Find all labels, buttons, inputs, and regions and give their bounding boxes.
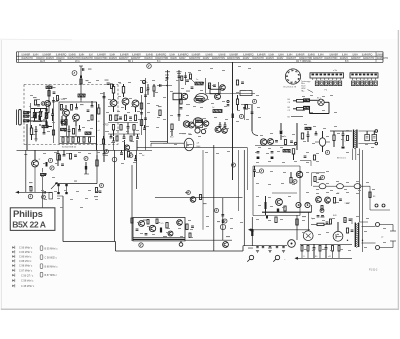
svg-text:ILMH: ILMH <box>169 53 175 56</box>
wire vert x179 <box>178 70 180 121</box>
wire vert x136.5b <box>136 150 138 189</box>
FM input chain wire <box>48 85 50 114</box>
Philips label text line1 <box>13 209 43 220</box>
tone bus y245.7 <box>243 245 287 247</box>
small box on busA <box>49 193 53 200</box>
wire ifstrip join <box>151 133 191 147</box>
res R40 <box>57 150 59 166</box>
caps row mid <box>219 122 227 126</box>
AVC wire row3 <box>288 117 304 119</box>
svg-text:RAMVO: RAMVO <box>266 57 275 60</box>
coil oval L10 <box>193 118 203 127</box>
resistor R26 <box>171 124 173 136</box>
IF transistor TS6 <box>183 121 194 128</box>
det label <box>284 136 297 145</box>
transistor TS11 oval <box>319 131 325 152</box>
table row1 text <box>22 53 384 56</box>
ift tail label <box>337 158 347 160</box>
ift top leads <box>359 130 378 145</box>
tertiary circle <box>195 128 206 134</box>
svg-text:B 123 45 6 78: B 123 45 6 78 <box>284 87 297 89</box>
svg-text:ILMHB: ILMHB <box>146 53 154 56</box>
IF amp box <box>173 93 188 100</box>
switch S2 contacts <box>352 81 378 86</box>
switch bank S2 frame <box>350 73 378 78</box>
page left edge <box>0 40 2 309</box>
bus y251 <box>116 250 244 252</box>
svg-text:C 87 MHz/ c: C 87 MHz/ c <box>19 269 33 272</box>
legend left text <box>19 247 35 288</box>
bottom bus out <box>295 257 353 260</box>
AF box left edge <box>252 166 254 216</box>
TS11 leads <box>315 141 330 143</box>
svg-text:ILMH: ILMH <box>278 53 284 56</box>
res x160 <box>158 106 162 116</box>
svg-text:RAMVO: RAMVO <box>36 57 45 60</box>
output transformer T1 <box>355 223 358 248</box>
lamp wire top <box>310 99 318 101</box>
svg-text:ILMH: ILMH <box>287 53 293 56</box>
capacitor C26 <box>227 100 230 105</box>
table row3 text <box>40 60 349 63</box>
dial lamp E1 <box>318 99 324 105</box>
resistor R5 <box>72 129 74 135</box>
wire det join <box>255 145 296 147</box>
bus y197.5 <box>155 197 243 199</box>
emitter resistor R16 <box>115 115 117 121</box>
oscillator shield box <box>59 102 97 144</box>
svg-text:C 56 QT / c: C 56 QT / c <box>21 274 34 277</box>
left cluster parts <box>39 155 64 167</box>
discriminator block <box>209 85 220 94</box>
label k9 <box>98 121 101 132</box>
AF box top line <box>253 165 300 167</box>
ferrite antenna L1 <box>17 110 22 126</box>
mixer column parts <box>45 105 47 128</box>
cluster x94-103 <box>94 184 104 198</box>
comb r2 <box>307 246 309 259</box>
label above rail <box>29 181 77 188</box>
tone labels <box>248 248 272 249</box>
IF top parts <box>186 78 196 92</box>
svg-text:M4 T NB4549L: M4 T NB4549L <box>296 61 312 63</box>
svg-text:a31: a31 <box>328 256 331 258</box>
emitter resistor R15 <box>109 115 111 121</box>
top mid components <box>208 83 225 90</box>
AM tuner dashed enclosure <box>24 85 118 145</box>
cluster right of bus <box>124 145 136 161</box>
table row2 text <box>22 57 389 60</box>
row2 parts <box>333 198 350 205</box>
res R31 <box>345 136 349 143</box>
tube socket caption <box>284 87 297 89</box>
resistor R12 <box>98 104 100 114</box>
AGC rail arrow <box>16 191 52 194</box>
drawing number text <box>369 268 378 271</box>
AVC label2 <box>288 107 290 112</box>
circled ref 8 <box>215 209 219 213</box>
cap C40 <box>63 150 66 156</box>
svg-text:ILMHBR: ILMHBR <box>43 53 52 56</box>
svg-text:4d: 4d <box>142 155 144 157</box>
capacitor C16 <box>136 134 139 138</box>
wire vert x30.5 <box>30 103 32 132</box>
resistor R2 <box>60 105 62 111</box>
dark trimmer pot <box>232 114 234 119</box>
output tube V2 <box>333 222 343 241</box>
wire vert x252 <box>252 104 258 136</box>
wire vert x203 <box>202 150 204 230</box>
svg-text:RAMVO: RAMVO <box>56 57 65 60</box>
AVC resistor row2 <box>293 108 307 111</box>
scan page tint <box>1 39 399 309</box>
osc box extra transistor <box>61 120 66 125</box>
wire right join <box>300 161 311 167</box>
circled ref 6 <box>293 180 297 184</box>
svg-text:ILMH: ILMH <box>33 53 39 56</box>
circled ref on x232 <box>232 163 236 167</box>
svg-text:ILMHBR: ILMHBR <box>22 53 31 56</box>
resistor R8 <box>72 137 74 142</box>
driver transistor TS17 <box>139 221 145 227</box>
page right edge <box>397 30 399 310</box>
svg-text:BD 2: BD 2 <box>128 61 134 63</box>
svg-text:B 87 88S/ c: B 87 88S/ c <box>45 274 58 277</box>
node dot tuner <box>39 120 47 121</box>
wire vert x370 <box>369 186 371 210</box>
svg-text:C 58 kHz/ c: C 58 kHz/ c <box>21 280 34 283</box>
capacitor C10 <box>103 97 106 98</box>
top cluster x108 <box>105 80 113 89</box>
IF transformer S2 <box>196 119 203 128</box>
driver box inner bottom <box>133 238 185 240</box>
resistor R9 <box>78 137 80 142</box>
label mid <box>142 155 144 157</box>
switch bank S1 cells <box>312 74 343 80</box>
top right of table parts <box>236 80 244 85</box>
terminal pair right <box>370 204 390 210</box>
svg-text:B8 C6 2.5: B8 C6 2.5 <box>337 158 347 160</box>
AF bottom line <box>253 215 300 217</box>
driver dark pot <box>160 228 162 233</box>
coil L12 <box>283 149 290 152</box>
driver input cluster <box>185 191 207 205</box>
res R33 <box>290 172 292 183</box>
x132 component <box>131 218 133 223</box>
bottom of x104 parts <box>102 136 104 150</box>
AF box bottom edge <box>262 205 312 212</box>
res R51 <box>369 192 376 198</box>
comb labels <box>303 256 331 258</box>
resistor R25 <box>141 88 143 93</box>
capacitor C13 <box>127 123 130 135</box>
svg-text:RAMVOTRN: RAMVOTRN <box>212 57 225 60</box>
svg-text:ILMHB: ILMHB <box>308 53 316 56</box>
driver parts2 <box>145 219 168 235</box>
switch legend pointer <box>308 90 314 93</box>
circled ref 4c <box>147 64 152 69</box>
svg-text:RAMVOTR: RAMVOTR <box>81 57 93 60</box>
battery cell B2 <box>304 106 310 109</box>
svg-text:ILM: ILM <box>89 53 93 56</box>
top labels out <box>311 215 337 220</box>
svg-text:ILMHBR: ILMHBR <box>296 53 305 56</box>
top join caps <box>184 74 191 79</box>
electrolytic C51 <box>251 217 255 246</box>
comb r4 <box>332 246 334 259</box>
resistor R6 <box>62 137 64 142</box>
fm lead <box>0 0 1 1</box>
AM label <box>197 143 202 148</box>
svg-text:C3: C3 <box>288 110 290 112</box>
transistor TS14 <box>32 150 39 192</box>
switch S1 contacts <box>315 81 341 86</box>
component value label noise <box>30 66 386 251</box>
svg-text:RAMV: RAMV <box>243 57 250 60</box>
row2 transistors <box>316 197 331 203</box>
speaker bracket <box>390 225 396 248</box>
lamp wire loop <box>310 102 330 113</box>
transistor TS19 <box>223 242 229 248</box>
svg-text:4700: 4700 <box>103 124 109 127</box>
comb r5 <box>338 246 340 259</box>
svg-text:C 83 MHz/ c: C 83 MHz/ c <box>19 251 33 254</box>
svg-text:C8: C8 <box>288 102 290 104</box>
circled ref 2b <box>84 157 88 161</box>
label IF2 <box>170 137 174 139</box>
driver label 5.5 <box>161 223 165 225</box>
svg-text:28 A: 28 A <box>75 60 80 63</box>
legend right symbols <box>40 246 43 277</box>
wire vert x132 <box>131 165 133 241</box>
coil L11 <box>305 127 311 129</box>
svg-text:RAMV: RAMV <box>170 57 177 60</box>
capacitor C7 <box>68 126 71 137</box>
cap C31 <box>342 131 345 149</box>
preamp transistor TS13 <box>276 199 283 206</box>
x179 lower parts <box>178 99 183 116</box>
svg-text:RAMVOTR: RAMVOTR <box>189 57 201 60</box>
transistor TS8 <box>203 121 209 127</box>
AF box part <box>266 216 306 219</box>
cluster r41 <box>69 154 77 160</box>
mixer transistor TS1 <box>63 105 70 116</box>
resistor R17 <box>124 115 126 121</box>
resistor R21 <box>133 125 135 137</box>
svg-text:B4: B4 <box>288 99 290 101</box>
parts right join <box>304 155 316 160</box>
svg-text:RAMVOTRN: RAMVOTRN <box>299 57 312 60</box>
resistor R13 <box>112 84 114 99</box>
parts above busA <box>29 182 33 191</box>
wire vert x145.5 <box>145 78 147 150</box>
B+ rail y183.6 <box>55 183 97 185</box>
cluster x33-40 upper <box>33 97 40 106</box>
label C57 B5X <box>57 99 66 101</box>
cap C30 <box>315 131 318 135</box>
sec center tap <box>360 222 369 241</box>
neutralizing row <box>157 84 172 87</box>
resistor R10 <box>83 137 85 142</box>
svg-text:ILMHB: ILMHB <box>69 53 77 56</box>
wire vert x244.3 <box>243 150 245 246</box>
tube socket pins <box>286 70 300 84</box>
svg-text:ILMHBR: ILMHBR <box>329 53 338 56</box>
speaker terminal bottom <box>362 243 394 250</box>
res R32 <box>292 149 294 161</box>
svg-text:ILMHBRQ: ILMHBRQ <box>178 53 189 56</box>
wire vert x185r <box>185 72 187 85</box>
capacitor C11 <box>119 117 122 118</box>
comb c1 <box>313 244 316 258</box>
RF transistor TS3 <box>110 100 117 112</box>
svg-text:C 98 MHz/ c: C 98 MHz/ c <box>19 265 33 268</box>
bottom of x114 parts <box>112 137 115 150</box>
label above L6 <box>196 79 199 81</box>
circled ref 9 <box>325 150 329 154</box>
svg-text:RAMVOTR: RAMVOTR <box>252 57 264 60</box>
svg-text:a: a <box>345 141 346 143</box>
driver extra parts <box>136 220 173 238</box>
comb r1 <box>301 246 303 259</box>
mixer row wire <box>206 93 256 95</box>
IF transistor TS5 <box>132 100 139 112</box>
diag arrow mid <box>51 182 58 189</box>
svg-text:RAMVOT: RAMVOT <box>131 57 141 60</box>
tube socket view B1 <box>285 69 300 84</box>
page top edge <box>0 38 72 41</box>
svg-text:RAMVOT: RAMVOT <box>286 57 296 60</box>
agc diode <box>84 162 89 174</box>
svg-text:B 88 MHz/ c: B 88 MHz/ c <box>45 265 59 268</box>
tone comb grounds <box>256 251 285 253</box>
svg-text:RAMVOTRN: RAMVOTRN <box>227 57 240 60</box>
switch S1 label <box>333 70 338 72</box>
Philips label text line2 <box>12 220 46 230</box>
resistor R11 <box>89 137 91 142</box>
wire antenna tap <box>27 112 31 150</box>
detector transistor TS10 <box>260 139 273 146</box>
detector caps <box>275 140 293 145</box>
speaker label <box>381 237 384 239</box>
svg-text:RAMV: RAMV <box>179 57 186 60</box>
svg-text:RAMVOT: RAMVOT <box>313 57 323 60</box>
wire tuner top <box>31 109 46 122</box>
svg-text:ILMH: ILMH <box>79 53 85 56</box>
dumbbell part 2 <box>65 184 67 194</box>
resistor R1 <box>30 125 32 140</box>
wire vert x238.5 <box>238 150 240 211</box>
res R50 <box>314 177 322 182</box>
FM chain cap <box>52 87 59 101</box>
capacitor C14 <box>110 134 113 138</box>
cap C32 <box>365 131 370 141</box>
mixer row box <box>240 91 252 96</box>
wire vert x167 <box>167 70 169 143</box>
res R34 <box>277 206 286 212</box>
battery cell B1 <box>304 99 310 102</box>
wire y240 link <box>185 239 232 241</box>
wire step x115.5 <box>115 242 117 252</box>
AVC resistor row1 <box>293 100 307 103</box>
svg-text:C 86 kHz/ c: C 86 kHz/ c <box>19 256 32 259</box>
osc transistor TS2 <box>73 114 80 126</box>
svg-text:ILMHB: ILMHB <box>376 53 384 56</box>
svg-text:o: o <box>318 179 319 181</box>
circled ref 10 <box>223 219 227 223</box>
screen cluster <box>346 228 353 241</box>
antenna coil windings <box>24 112 30 122</box>
cap C60 <box>144 95 147 119</box>
legend left symbols <box>12 246 15 288</box>
cap on busA <box>44 191 45 194</box>
transistor TS9 <box>215 127 227 134</box>
svg-text:ILMHBR: ILMHBR <box>257 53 266 56</box>
osc coil mid <box>41 168 47 208</box>
circled ref top <box>72 71 77 76</box>
svg-text:ILMH: ILMH <box>352 53 358 56</box>
svg-text:RAMVOTR: RAMVOTR <box>22 57 34 60</box>
label 1n 472 <box>29 105 44 109</box>
svg-text:Philips: Philips <box>13 209 43 220</box>
svg-text:RAMV: RAMV <box>203 57 210 60</box>
cap chain x104 <box>103 150 109 162</box>
wire vert x114.5 <box>114 150 116 241</box>
svg-text:C 88 kHz/ c: C 88 kHz/ c <box>19 260 32 263</box>
row2 labels <box>321 193 339 211</box>
transistor TS7 <box>215 94 221 100</box>
headphone jack J3 <box>288 215 298 247</box>
driver box <box>133 218 185 241</box>
pol cap on x114.5 <box>112 157 117 162</box>
IF trap coil L3 <box>78 94 85 102</box>
res R46 <box>120 150 130 157</box>
circled ref 11 <box>318 176 325 182</box>
three AF diodes row <box>319 184 361 189</box>
svg-text:RAMVOTRN: RAMVOTRN <box>94 57 107 60</box>
B+ rail corner x97 <box>96 150 98 183</box>
capacitor C20 <box>165 75 169 79</box>
svg-text:P1 51-2: P1 51-2 <box>369 268 378 271</box>
out top caps <box>317 216 352 223</box>
coil L9 <box>212 107 222 113</box>
tone comb caps <box>256 247 284 248</box>
svg-text:ILMH: ILMH <box>269 53 275 56</box>
dumbbell part 1 <box>57 184 59 194</box>
svg-text:B 55 MHz/ c: B 55 MHz/ c <box>45 247 59 250</box>
wire corner x63 <box>57 196 116 242</box>
resistor R24 <box>153 84 155 97</box>
capacitor C12 <box>129 117 132 118</box>
resistor R3 <box>70 105 72 111</box>
pot P1 <box>265 196 267 215</box>
svg-text:ILMHBR: ILMHBR <box>229 53 238 56</box>
FM chain transistor <box>41 101 50 107</box>
resistor R20 <box>120 125 122 131</box>
svg-text:RAMVOTR: RAMVOTR <box>377 57 389 60</box>
main bus y150 <box>17 149 137 151</box>
chassis line y147.5 <box>137 148 248 190</box>
coil oval L8 <box>196 94 208 102</box>
IF coil L6 <box>195 82 204 85</box>
coil L4 <box>61 128 67 130</box>
driver tube V1 <box>303 212 313 240</box>
wire osc box right <box>96 102 98 150</box>
bus y150 right part <box>136 149 152 151</box>
wire vertical feed A <box>103 92 105 150</box>
wire vert x53.5 <box>52 97 55 143</box>
switch bank S2 cells <box>351 74 377 80</box>
